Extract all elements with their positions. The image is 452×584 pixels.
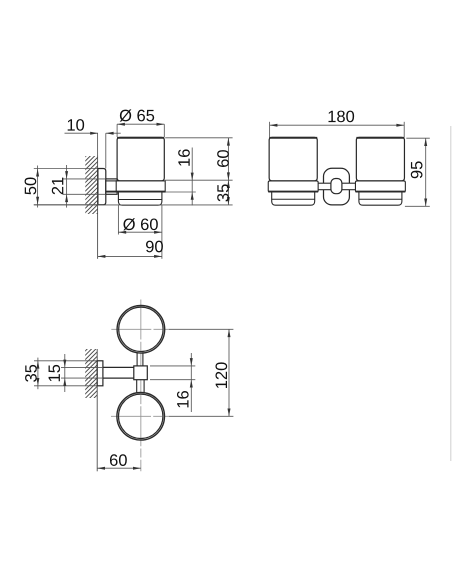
holder ring bottom thick edge bbox=[116, 191, 165, 193]
arrows dim Ø65 bbox=[117, 123, 125, 126]
upper cup circle (inner) bbox=[119, 307, 163, 351]
lower cup circle (inner) bbox=[119, 394, 163, 438]
arrowheads top view bbox=[36, 329, 230, 469]
dim 16 top view: dimension line bbox=[190, 353, 192, 412]
dim 15: dimension line bbox=[64, 354, 66, 392]
cup lower inner line (glass bottom) bbox=[118, 199, 161, 201]
dim 10: dimension line bbox=[65, 132, 99, 134]
arrows dim 15 (outside) bbox=[63, 360, 66, 368]
label 120 bbox=[215, 362, 227, 388]
right cup lower inner line bbox=[359, 198, 402, 200]
dim 120: lower extension bbox=[169, 415, 234, 417]
dim 90: dimension line bbox=[98, 255, 162, 257]
centerline horizontal lower circle bbox=[111, 415, 169, 417]
wall hatching bbox=[80, 136, 106, 248]
arrowheads front view bbox=[270, 124, 428, 207]
cup lower part (below ring) side view bbox=[118, 193, 161, 206]
tumbler cup body side view bbox=[117, 137, 164, 181]
dim 16 side: extension line at arm bottom bbox=[165, 191, 196, 193]
flange top view bbox=[97, 361, 103, 386]
arrows dim 21 (outside) bbox=[65, 171, 68, 179]
arrows dim 16 top view (outside) bbox=[190, 358, 193, 366]
left ring bottom thick edge bbox=[268, 191, 318, 193]
dim 120: upper extension bbox=[169, 328, 234, 330]
wall face line top view bbox=[96, 349, 98, 471]
right arm segment (collar to ring) bbox=[341, 183, 355, 190]
label 10 bbox=[68, 119, 84, 131]
right cup body front view bbox=[356, 137, 404, 181]
wall face line bbox=[97, 156, 99, 259]
dim 15: extension lines bbox=[61, 366, 103, 368]
arm lines through collar side view bbox=[106, 180, 118, 182]
dim 50: dimension line bbox=[37, 166, 39, 208]
arrows dim 90 bbox=[98, 255, 106, 258]
holder ring side view bbox=[116, 181, 165, 192]
label 16 side bbox=[178, 149, 190, 165]
arrows dim Ø60 bbox=[118, 231, 126, 234]
dim 50: extension lines bbox=[34, 168, 98, 170]
label 15 bbox=[49, 365, 61, 381]
arrows dim 60 bottom bbox=[97, 467, 105, 470]
left holder ring front view bbox=[268, 181, 318, 192]
dim 35 top view: dimension line bbox=[37, 358, 39, 390]
left cup body front view bbox=[269, 137, 317, 181]
dim 180: dimension line bbox=[270, 124, 405, 126]
mounting bar top view bbox=[103, 366, 134, 368]
arrowheads side view bbox=[36, 123, 230, 258]
arrows dim 120 bbox=[228, 329, 231, 337]
top view dimension texts bbox=[25, 362, 227, 466]
flange (wall plate) side view bbox=[98, 169, 106, 205]
dim Ø65: extension lines bbox=[116, 124, 118, 137]
dim 60/35 side: bottom long extension line bbox=[34, 204, 233, 206]
dim 10: wall extension up bbox=[97, 133, 99, 155]
dim 95: extension lines bbox=[406, 137, 430, 139]
label 35 top view bbox=[25, 365, 37, 382]
centerline vertical (shared by both circles) bbox=[140, 300, 142, 472]
dim 60/35 side: dimension line bbox=[227, 138, 229, 205]
right cup lower part front view bbox=[359, 193, 402, 206]
arrows dim 35 top view bbox=[36, 361, 39, 369]
dim 16 top view: extension lines bbox=[150, 365, 195, 367]
dim 16 side: dimension line bbox=[191, 148, 193, 206]
dim 60 bottom: dimension line bbox=[97, 467, 141, 469]
dim 120: dimension line bbox=[228, 329, 230, 416]
right ring bottom thick edge bbox=[355, 191, 405, 193]
mount cover plate (stadium shape) front view bbox=[324, 168, 350, 205]
centerline horizontal upper circle bbox=[111, 328, 169, 330]
label 35 side bbox=[217, 184, 229, 201]
lower cup circle (outer) bbox=[117, 393, 165, 441]
dim 95: dimension line bbox=[425, 138, 427, 206]
left cup lower part front view bbox=[272, 193, 315, 206]
faint page border line right edge bbox=[450, 126, 452, 461]
label 60 side bbox=[217, 150, 229, 167]
left cup top rim thick edge bbox=[269, 137, 317, 139]
dim Ø60: dimension line bbox=[118, 231, 161, 233]
upper cup circle (outer) bbox=[117, 306, 165, 354]
label 95 bbox=[411, 161, 423, 178]
arrows dim 16 side (outside) bbox=[191, 173, 194, 181]
arrows dim 35 side bbox=[227, 180, 230, 188]
right holder ring front view bbox=[355, 181, 405, 192]
side view dimension texts bbox=[25, 109, 229, 252]
label Ø 60 bbox=[123, 218, 158, 230]
dim Ø60: extension lines bbox=[117, 205, 119, 234]
dim 35 top view: extension lines bbox=[34, 360, 97, 362]
dim 10: extension line right bbox=[105, 133, 107, 168]
lower rod segment bbox=[136, 380, 138, 394]
label 50 bbox=[25, 177, 37, 194]
collar front view bbox=[331, 179, 342, 194]
label 60 bottom bbox=[110, 454, 127, 466]
arrows dim 50 bbox=[36, 169, 39, 177]
dim 60/35 side: middle extension bbox=[165, 179, 232, 181]
right cup top rim thick edge bbox=[356, 137, 404, 139]
upper rod segment bbox=[136, 352, 138, 366]
label 90 bbox=[146, 241, 163, 253]
collar side view bbox=[106, 179, 117, 194]
label 16 top view bbox=[177, 391, 189, 407]
dim 21: extension lines bbox=[63, 178, 106, 180]
arrows dim 60 side bbox=[227, 138, 230, 146]
label 180 bbox=[328, 111, 354, 123]
label Ø 65 bbox=[120, 109, 155, 121]
dim Ø65: dimension line bbox=[117, 123, 164, 125]
wall hatching top view bbox=[79, 314, 105, 422]
arrows dim 95 bbox=[424, 138, 427, 146]
front view dimension texts bbox=[328, 111, 422, 179]
label 21 bbox=[52, 178, 64, 195]
arrows dim 180 bbox=[270, 124, 278, 127]
dim 180: extension lines bbox=[269, 122, 271, 137]
dim 60/35 side: top extension bbox=[165, 137, 232, 139]
arrows dim 10 (outside, pointing inward) bbox=[90, 132, 98, 135]
dim 21: dimension line bbox=[66, 165, 68, 208]
left cup lower inner line bbox=[272, 198, 315, 200]
rod holder block top view bbox=[134, 366, 148, 380]
left arm segment (ring to collar) bbox=[318, 183, 331, 190]
cup top rim thick edge bbox=[117, 137, 164, 139]
